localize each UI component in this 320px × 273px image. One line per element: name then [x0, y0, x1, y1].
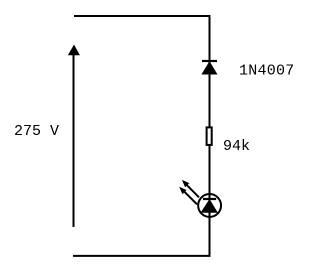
LED D2 cathode bar: [203, 198, 216, 200]
source arrow head: [68, 45, 80, 56]
LED D2 triangle: [201, 200, 217, 212]
LED light arrow lower: [179, 187, 197, 205]
LED light arrow upper: [182, 180, 199, 197]
svg-text:275 V: 275 V: [14, 123, 59, 140]
wire: outer loop top/right/bottom: [73, 16, 210, 256]
svg-text:1N4007: 1N4007: [239, 63, 295, 80]
source arrow shaft: [73, 54, 75, 227]
resistor R1 box: [207, 127, 212, 144]
svg-text:94k: 94k: [223, 138, 250, 155]
diode D1 triangle: [202, 62, 216, 74]
diode D1 cathode bar: [202, 60, 217, 62]
LED D2 circle: [198, 194, 221, 217]
